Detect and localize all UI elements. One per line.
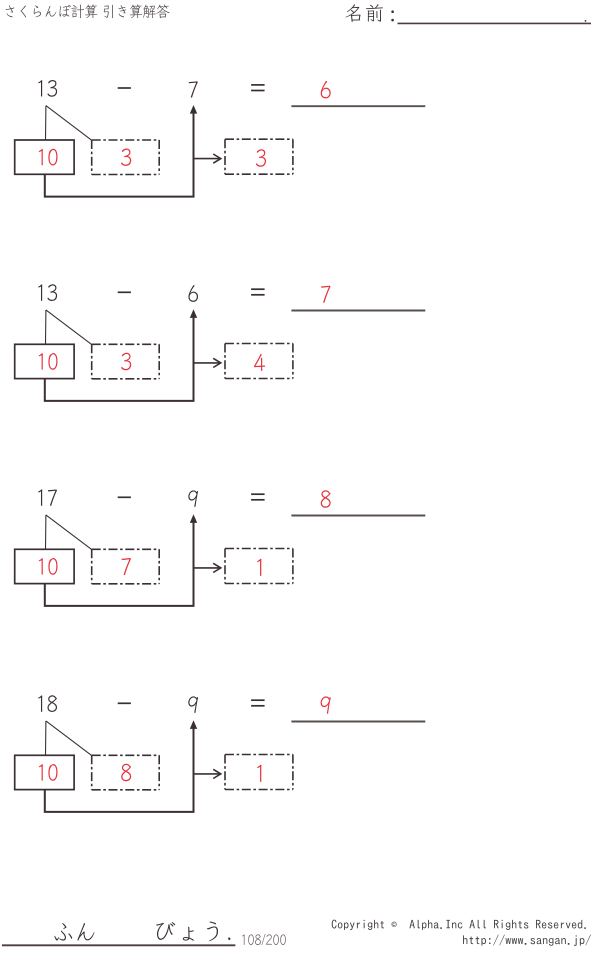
P4 result box (dashed)	[225, 755, 293, 790]
name label 名前	[346, 4, 383, 22]
P2 red keep digit 3	[121, 353, 131, 370]
P4 ten box (solid)	[15, 755, 74, 789]
P2 minuend 13	[38, 284, 57, 301]
P1 cherry branch lines	[46, 106, 92, 141]
P2 answer 7 (red)	[321, 286, 331, 303]
P1 minus sign	[118, 87, 131, 89]
P2 subtrahend 6	[188, 285, 198, 302]
footer ふん	[55, 923, 95, 941]
P3 ten box (solid)	[15, 549, 74, 583]
copyright line 2 url	[463, 935, 591, 946]
P4 red 10	[39, 764, 58, 781]
P2 right arrow	[195, 362, 220, 364]
P4 up arrowhead	[190, 720, 197, 729]
P4 keep box (dashed)	[92, 755, 160, 790]
P3 right arrow	[195, 567, 220, 569]
P1 answer underline	[291, 105, 425, 107]
P3 red 10	[39, 558, 58, 575]
P1 red keep digit 3	[121, 148, 131, 165]
P2 keep box (dashed)	[92, 344, 160, 379]
name line end period	[585, 20, 587, 22]
P3 answer underline	[291, 515, 425, 517]
P2 cherry branch lines	[46, 310, 92, 345]
P3 red keep digit 7	[121, 558, 131, 575]
P4 cherry branch lines	[46, 721, 92, 756]
P4 minuend 18	[38, 695, 57, 712]
footer びょう.	[156, 922, 230, 942]
P1 red result digit 3	[256, 149, 266, 166]
P3 up arrowhead	[190, 514, 197, 523]
P3 answer 8 (red)	[321, 490, 331, 507]
P1 red 10	[39, 149, 58, 166]
P3 equals sign	[251, 493, 265, 495]
footer time underline	[2, 944, 235, 946]
P3 keep box (dashed)	[92, 549, 160, 584]
P2 up arrowhead	[190, 309, 197, 318]
P4 minus sign	[118, 702, 131, 704]
P3 wire from ten box up to subtrahend	[45, 522, 194, 606]
P3 minuend 17	[38, 489, 57, 506]
footer page number 108/200	[242, 934, 286, 946]
P3 cherry branch lines	[46, 515, 92, 550]
P4 subtrahend 9	[188, 696, 198, 713]
P2 ten box (solid)	[15, 344, 74, 378]
P1 wire from ten box up to subtrahend	[45, 113, 194, 197]
P4 red result digit 1	[257, 765, 261, 782]
P4 right arrow	[195, 773, 220, 775]
name colon	[391, 10, 394, 13]
P2 red 10	[39, 353, 58, 370]
P2 wire from ten box up to subtrahend	[45, 317, 194, 401]
P4 wire from ten box up to subtrahend	[45, 728, 194, 812]
P4 answer underline	[291, 721, 425, 723]
P4 equals sign	[251, 699, 265, 701]
P2 minus sign	[118, 291, 131, 293]
P1 ten box (solid)	[15, 140, 74, 174]
P2 equals sign	[251, 288, 265, 290]
P3 minus sign	[118, 496, 131, 498]
P2 result box (dashed)	[225, 344, 293, 379]
P1 right arrow	[195, 158, 220, 160]
P1 subtrahend 7	[189, 81, 198, 97]
P1 minuend 13	[38, 80, 57, 97]
P1 up arrowhead	[190, 105, 197, 114]
P4 red keep digit 8	[121, 764, 131, 781]
P1 answer 6 (red)	[321, 81, 331, 98]
name underline	[398, 22, 592, 24]
P4 answer 9 (red)	[321, 696, 331, 713]
P2 answer underline	[291, 310, 425, 312]
P3 red result digit 1	[257, 559, 261, 576]
P3 result box (dashed)	[225, 549, 293, 584]
header title さくらんぼ計算 引き算解答	[5, 4, 169, 18]
P2 red result digit 4	[254, 354, 265, 371]
P1 equals sign	[251, 84, 265, 86]
P3 subtrahend 9	[188, 490, 198, 507]
P1 result box (dashed)	[225, 139, 293, 174]
P1 keep box (dashed)	[92, 140, 160, 175]
copyright line 1	[332, 920, 586, 930]
